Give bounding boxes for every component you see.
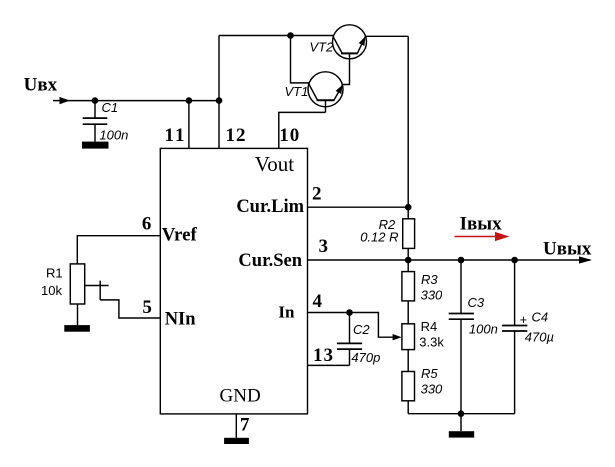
value label 100n (C3) <box>469 321 498 336</box>
resistor R3 <box>402 260 415 324</box>
svg-text:Vref: Vref <box>162 226 198 246</box>
svg-text:Iвых: Iвых <box>460 213 502 234</box>
svg-text:470p: 470p <box>351 350 380 365</box>
svg-text:Uвх: Uвх <box>24 74 58 95</box>
capacitor C1 <box>83 101 108 142</box>
svg-text:C3: C3 <box>468 295 485 310</box>
IC U1 body <box>160 148 307 414</box>
wire VT2 emitter to right vertical <box>365 35 408 37</box>
svg-text:10: 10 <box>279 125 300 146</box>
svg-text:Cur.Sen: Cur.Sen <box>238 251 302 271</box>
wire pin 10 to VT1 base <box>279 112 326 148</box>
wire VT2 base lead to VT1 emitter <box>343 53 350 84</box>
wire vertical x219 up to top rail <box>218 36 220 101</box>
value label R5 <box>421 366 438 381</box>
label Uvx <box>24 74 58 95</box>
resistor R5 <box>402 372 415 414</box>
junction dot C3 top <box>458 257 465 264</box>
svg-text:4: 4 <box>313 291 323 312</box>
R4 wiper arrow <box>393 334 402 340</box>
wire right vertical down to R2 <box>407 36 409 219</box>
svg-text:12: 12 <box>226 125 247 146</box>
pin name Cur.Sen <box>238 251 302 271</box>
ground at C1 <box>82 142 109 149</box>
svg-text:0.12 R: 0.12 R <box>360 230 398 245</box>
junction dot bottom ground node <box>458 410 465 417</box>
svg-text:7: 7 <box>240 415 250 436</box>
wire pin 13 <box>308 364 350 366</box>
svg-text:330: 330 <box>421 288 443 303</box>
pin name NIn <box>165 309 197 329</box>
svg-text:100n: 100n <box>99 127 128 142</box>
pin number 5 <box>142 297 152 318</box>
pin name Vout <box>255 152 294 176</box>
output arrow <box>579 256 592 263</box>
input arrow <box>60 97 70 104</box>
resistor R1 potentiometer <box>70 264 108 304</box>
value label 330 (R3) <box>421 288 443 303</box>
ground at R1 <box>64 325 90 332</box>
pin number 3 <box>319 236 329 257</box>
svg-text:R4: R4 <box>421 319 438 334</box>
junction dot VT1 collector tap <box>287 32 294 39</box>
svg-text:2: 2 <box>312 183 322 204</box>
ground at pin 7 <box>224 438 249 444</box>
svg-text:Cur.Lim: Cur.Lim <box>236 197 304 217</box>
svg-text:R1: R1 <box>46 266 63 281</box>
svg-text:3.3k: 3.3k <box>419 334 444 349</box>
svg-text:470µ: 470µ <box>525 330 554 345</box>
svg-text:+: + <box>520 312 528 327</box>
value label 470u (C4) <box>525 330 554 345</box>
wire R1 wiper to pin 5 NIn <box>100 300 160 318</box>
junction dot pin 2 node <box>405 204 412 211</box>
junction dot C1 tap <box>92 97 99 104</box>
value label VT1 <box>285 84 309 99</box>
wire pin 3 Cur.Sen <box>308 259 408 261</box>
wire VT1 collector branch <box>291 36 310 83</box>
svg-text:C4: C4 <box>532 310 549 325</box>
svg-text:VT2: VT2 <box>310 39 335 54</box>
value label plus (C4) <box>520 312 528 327</box>
wire pin 12 <box>218 101 220 148</box>
svg-text:NIn: NIn <box>165 309 197 329</box>
svg-text:R3: R3 <box>421 272 438 287</box>
wire top rail to VT2 collector <box>219 35 334 37</box>
label Ivyx <box>460 213 502 234</box>
value label R1 <box>46 266 63 281</box>
value label R4 <box>421 319 438 334</box>
pin number 12 <box>226 125 247 146</box>
value label 330 (R5) <box>421 381 443 396</box>
svg-text:11: 11 <box>165 125 187 146</box>
svg-text:5: 5 <box>142 297 152 318</box>
value label 100n (C1) <box>99 127 128 142</box>
junction dot C2 tap <box>346 309 353 316</box>
capacitor C3 <box>449 260 474 414</box>
value label C1 <box>102 100 119 115</box>
svg-text:3: 3 <box>319 236 329 257</box>
capacitor C2 <box>337 313 362 366</box>
wire pin 6 Vref to R1 <box>77 236 160 264</box>
resistor R4 trimmer <box>402 324 415 372</box>
value label R2 <box>379 217 396 232</box>
value label 10k (R1) <box>41 283 62 298</box>
capacitor C4 <box>502 260 527 414</box>
value label 0.12 R (R2) <box>360 230 398 245</box>
wire output rail <box>408 259 590 261</box>
wire VT1 base lead <box>325 100 327 112</box>
pin number 7 <box>240 415 250 436</box>
junction dot pin 12 tap <box>216 97 223 104</box>
wire pin 2 Cur.Lim <box>308 206 408 208</box>
svg-text:VT1: VT1 <box>285 84 309 99</box>
pin name GND <box>220 386 261 407</box>
svg-text:R5: R5 <box>421 366 438 381</box>
junction dot pin 11 tap <box>186 97 193 104</box>
resistor R2 <box>403 219 415 249</box>
pin number 11 <box>165 125 187 146</box>
junction dot output node at R2 bottom <box>405 257 412 264</box>
pin name Cur.Lim <box>236 197 304 217</box>
value label C3 <box>468 295 485 310</box>
svg-text:330: 330 <box>421 381 443 396</box>
junction dot C4 top <box>511 257 518 264</box>
arrow Ivyx red <box>455 232 510 241</box>
ground at bottom node <box>449 414 474 438</box>
transistor VT2 <box>333 25 369 59</box>
wire pin 4 In to R4 wiper <box>308 313 398 338</box>
wire pin 7 GND <box>235 413 237 438</box>
svg-text:Uвых: Uвых <box>543 239 592 260</box>
pin number 2 <box>312 183 322 204</box>
svg-text:100n: 100n <box>469 321 498 336</box>
value label C4 <box>532 310 549 325</box>
pin number 4 <box>313 291 323 312</box>
wire input rail Uvx <box>53 100 219 102</box>
value label R3 <box>421 272 438 287</box>
wire pin 11 <box>188 101 190 148</box>
pin number 6 <box>142 214 152 235</box>
svg-text:Vout: Vout <box>255 152 294 176</box>
svg-text:6: 6 <box>142 214 152 235</box>
svg-text:C2: C2 <box>353 322 370 337</box>
value label 3.3k (R4) <box>419 334 444 349</box>
transistor VT1 <box>308 72 346 107</box>
wire bottom rail <box>408 413 514 415</box>
pin name Vref <box>162 226 198 246</box>
svg-text:13: 13 <box>313 345 334 366</box>
svg-text:In: In <box>278 303 295 322</box>
pin number 13 <box>313 345 334 366</box>
pin name In <box>278 303 295 322</box>
value label C2 <box>353 322 370 337</box>
value label 470p (C2) <box>351 350 380 365</box>
svg-text:C1: C1 <box>102 100 119 115</box>
wire R1 bottom <box>77 304 79 325</box>
pin number 10 <box>279 125 300 146</box>
svg-text:GND: GND <box>220 386 261 407</box>
value label VT2 <box>310 39 335 54</box>
label Uvyx <box>543 239 592 260</box>
wire R2 bottom stub <box>407 248 409 260</box>
svg-text:10k: 10k <box>41 283 62 298</box>
